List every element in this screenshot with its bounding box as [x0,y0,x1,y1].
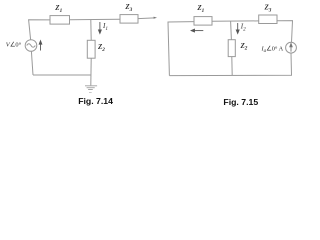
resistor Z1 (impedance box) [50,16,70,25]
resistor Z2 (impedance box) [228,40,235,57]
wire bottom [33,74,91,76]
wire Z2 to ground [90,58,92,85]
wire source bottom [31,51,33,75]
svg-text:I1: I1 [102,22,108,32]
svg-text:Z2: Z2 [240,42,248,52]
wire left side [168,22,194,76]
annotation arrow up (source polarity) [39,41,42,51]
svg-text:Z2: Z2 [97,43,105,53]
svg-text:Fig. 7.15: Fig. 7.15 [223,97,258,107]
wire Z3 to output arrow [138,17,155,20]
resistor Z2 (impedance box) [87,40,95,58]
resistor Z3 (impedance box) [259,15,277,24]
current source Ia (circle) [286,42,297,53]
wire Z3 to right corner, down to source [277,21,293,43]
svg-text:Fig. 7.14: Fig. 7.14 [78,96,113,106]
wire top-left corner to Z1 [29,20,50,40]
voltage source V (AC circle) [25,40,37,52]
wire Z1 to Z3 (node at x=231) [212,20,259,22]
output arrowhead [154,17,157,19]
wire node down to Z2 [230,21,233,40]
resistor Z3 (impedance box) [120,15,138,24]
svg-text:I2: I2 [240,22,246,32]
svg-text:Ia∠0° A: Ia∠0° A [261,45,284,54]
svg-text:Z1: Z1 [54,4,62,14]
wire Z1 to Z3 (node at x=91) [70,18,121,21]
svg-text:Z3: Z3 [264,4,272,14]
annotation arrow left (top wire current) [191,29,203,32]
resistor Z1 (impedance box) [194,17,212,26]
wire node down to Z2 [90,20,92,41]
svg-text:Z1: Z1 [196,4,204,14]
wire Z2 to bottom [231,57,233,76]
svg-text:V∠0°: V∠0° [6,42,22,49]
wire source to bottom corner [169,53,291,76]
ground [85,86,97,93]
current source internal up arrow [290,44,292,52]
svg-text:Z3: Z3 [124,3,132,13]
annotation arrow I1 (down) [99,22,102,33]
annotation arrow I2 (down) [236,23,239,33]
